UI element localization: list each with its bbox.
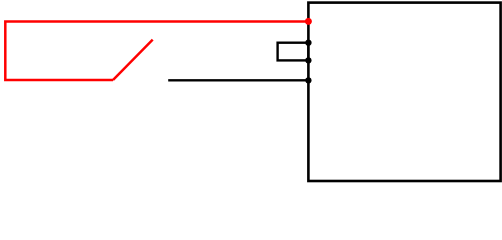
node C (junction dot) [305,57,311,63]
wire (black return from switch contact to node D) [168,79,308,81]
wire (red live net: top run, left drop, bottom run to switch) [5,22,308,81]
switch S1 lever (open) [113,40,153,80]
component box U1 (large rectangle) [308,3,500,181]
component R1 (small rectangle between node B and node C) [278,43,309,61]
node B (junction dot) [305,40,311,46]
node A (red junction dot) [305,18,312,25]
node D (junction dot) [305,77,311,83]
